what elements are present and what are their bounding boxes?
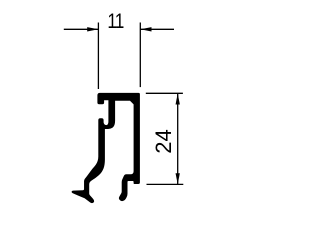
svg-text:24: 24 — [151, 129, 176, 153]
svg-text:1: 1 — [115, 9, 125, 33]
